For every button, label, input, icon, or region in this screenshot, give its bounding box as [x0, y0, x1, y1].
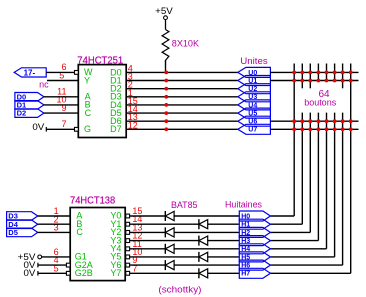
wire D2 to U1 — [44, 112, 78, 114]
wire H1 tag to column — [270, 223, 302, 225]
wire U1 D5 to tag U5 — [126, 112, 238, 114]
net tag H4 — [239, 244, 270, 254]
wire U1 D4 to tag U4 — [126, 104, 238, 106]
net tag 17- — [14, 68, 46, 78]
wire resistor to D0 net — [165, 60, 167, 72]
wire U2 Y7 to diode D8 — [130, 272, 199, 274]
svg-text:G2B: G2B — [75, 268, 93, 278]
junction U1-H1 — [300, 79, 304, 83]
junction U1-H3 — [317, 79, 321, 83]
junction U0-H5 — [333, 71, 337, 75]
svg-text:74HCT251: 74HCT251 — [77, 54, 123, 66]
wire H7 tag to column — [270, 272, 350, 274]
svg-text:+5V: +5V — [155, 6, 173, 16]
net tag U4 — [238, 100, 271, 110]
wire diode D7 to tag H6 — [174, 264, 239, 266]
svg-text:74HCT138: 74HCT138 — [70, 195, 115, 207]
wire D5 to U2 — [38, 231, 70, 233]
svg-text:boutons: boutons — [304, 98, 336, 108]
svg-text:(schottky): (schottky) — [158, 284, 201, 294]
svg-text:C: C — [76, 227, 83, 237]
svg-text:17-: 17- — [24, 69, 36, 78]
net tag H7 — [239, 268, 270, 278]
svg-text:Unites: Unites — [240, 56, 268, 66]
IC U2 74HCT138 body — [70, 208, 125, 281]
junction U6-H6 — [341, 119, 345, 123]
junction U6-H1 — [300, 119, 304, 123]
matrix label 64 boutons — [304, 89, 336, 108]
junction U6-H5 — [333, 119, 337, 123]
wire matrix column H2 lower — [309, 113, 311, 233]
wire matrix row U1 — [270, 80, 358, 82]
inverter bubble U2 G2A — [66, 263, 70, 267]
svg-text:H7: H7 — [241, 271, 250, 278]
wire U2 Y2 to diode D3 — [130, 231, 166, 233]
net tag H2 — [239, 227, 270, 237]
wire H2 tag to column — [270, 231, 310, 233]
svg-text:G: G — [84, 124, 91, 134]
wire H0 tag to column — [270, 215, 294, 217]
ground 0V terminal (U2 G2A) — [24, 260, 38, 270]
wire matrix column H3 lower — [317, 113, 319, 241]
net tag D2 — [15, 109, 44, 118]
junction U0-H7 — [349, 71, 353, 75]
junction U1-H6 — [341, 79, 345, 83]
junction U0-H2 — [308, 71, 312, 75]
junction pull-up on D3 — [164, 95, 168, 99]
net tag D3 — [7, 212, 38, 221]
svg-text:D2: D2 — [17, 109, 27, 118]
net tag U5 — [238, 108, 271, 118]
svg-text:Y7: Y7 — [110, 268, 121, 278]
net tag U6 — [238, 116, 271, 126]
inverter bubble U2 Y6 — [126, 263, 130, 267]
wire U2 Y6 to diode D7 — [130, 264, 166, 266]
diode D5 BAT85 (cathode left) — [165, 244, 174, 254]
wire 0V to G2B — [38, 272, 67, 274]
wire matrix column H7 — [350, 64, 352, 274]
wire D4 to U2 — [38, 223, 70, 225]
wire U1 D7 to tag U7 — [126, 128, 238, 130]
inverter bubble U2 Y7 — [126, 271, 130, 275]
wire U1 D0 to tag U0 — [126, 71, 238, 73]
diode D1 BAT85 (cathode left) — [165, 211, 174, 221]
diode D2 BAT85 (cathode left) — [199, 219, 208, 229]
junction U1-H0 — [292, 79, 296, 83]
net tag H5 — [239, 252, 270, 262]
net tag D4 — [7, 220, 38, 229]
net tag D5 — [7, 228, 38, 237]
ground 0V terminal (U1 G) — [32, 122, 46, 132]
junction pull-up on D2 — [164, 87, 168, 91]
inverter bubble U2 G2B — [66, 271, 70, 275]
wire H5 tag to column — [270, 256, 334, 258]
wire matrix column H3 upper — [317, 64, 319, 81]
wire matrix column H5 upper — [334, 64, 336, 81]
wire Y pin nc stub — [47, 80, 78, 82]
junction U7-H6 — [341, 127, 345, 131]
wire diode D8 to tag H7 — [208, 272, 240, 274]
wire matrix row U6 — [270, 120, 358, 122]
svg-text:BAT85: BAT85 — [171, 200, 198, 210]
junction U1-H5 — [333, 79, 337, 83]
wire matrix column H4 upper — [326, 64, 328, 81]
wire matrix column H2 upper — [309, 64, 311, 89]
svg-text:Huitaines: Huitaines — [225, 199, 262, 209]
junction U1-H4 — [325, 79, 329, 83]
wire +5V to resistor — [165, 20, 167, 30]
junction U6-H0 — [292, 119, 296, 123]
wire H3 tag to column — [270, 240, 318, 242]
net tag D1 — [15, 101, 44, 110]
wire matrix column H6 upper — [342, 64, 344, 89]
svg-text:D5: D5 — [8, 228, 18, 237]
wire diode D3 to tag H2 — [174, 231, 239, 233]
inverter bubble U2 Y2 — [126, 231, 130, 235]
junction U7-H3 — [317, 127, 321, 131]
wire H4 tag to column — [270, 248, 326, 250]
wire D1 to U1 — [44, 104, 78, 106]
wire matrix column H4 lower — [326, 113, 328, 249]
net tag D0 — [15, 92, 44, 101]
inverter bubble U2 Y5 — [126, 255, 130, 259]
svg-text:8X10K: 8X10K — [172, 39, 199, 49]
wire H6 tag to column — [270, 264, 342, 266]
junction pull-up on D4 — [164, 103, 168, 107]
inverter bubble U2 Y1 — [126, 222, 130, 226]
diode D3 BAT85 (cathode left) — [165, 227, 174, 237]
svg-text:0V: 0V — [32, 122, 44, 132]
net tag U3 — [238, 92, 271, 102]
wire U2 Y3 to diode D4 — [130, 240, 199, 242]
junction U0-H4 — [325, 71, 329, 75]
wire diode D1 to tag H0 — [174, 215, 239, 217]
wire +5V to G1 — [42, 256, 71, 258]
wire U2 Y4 to diode D5 — [130, 248, 166, 250]
wire U1 D1 to tag U1 — [126, 80, 238, 82]
junction U0-H6 — [341, 71, 345, 75]
net tag U0 — [238, 67, 271, 77]
junction U1-H2 — [308, 79, 312, 83]
wire diode D2 to tag H1 — [208, 223, 240, 225]
ground 0V terminal (U2 G2B) — [24, 268, 38, 278]
wire 0V to G pin — [46, 128, 74, 130]
junction U6-H3 — [317, 119, 321, 123]
wire D0 to U1 — [44, 96, 78, 98]
wire U2 Y5 to diode D6 — [130, 256, 199, 258]
diode D6 BAT85 (cathode left) — [199, 252, 208, 262]
wire diode D4 to tag H3 — [208, 240, 240, 242]
IC U1 74HCT251 body — [78, 65, 126, 138]
svg-text:0V: 0V — [24, 268, 36, 278]
junction U7-H5 — [333, 127, 337, 131]
wire D3 to U2 — [38, 215, 70, 217]
junction pull-up on D5 — [164, 111, 168, 115]
junction U7-H4 — [325, 127, 329, 131]
inverter bubble U1 pin 6 W — [75, 71, 79, 75]
junction U0-H1 — [300, 71, 304, 75]
wire 0V to G2A — [38, 264, 67, 266]
net tag U2 — [238, 84, 271, 94]
junction U6-H4 — [325, 119, 329, 123]
power +5V terminal — [155, 6, 173, 19]
svg-text:nc: nc — [39, 79, 49, 89]
wire U1 D3 to tag U3 — [126, 96, 238, 98]
junction pull-up on D0 — [164, 71, 168, 75]
net tag H1 — [239, 219, 270, 229]
wire matrix column H5 lower — [334, 113, 336, 257]
wire U2 Y0 to diode D1 — [130, 215, 166, 217]
svg-text:D7: D7 — [110, 124, 122, 134]
junction U1-H7 — [349, 79, 353, 83]
net tag U1 — [238, 76, 271, 86]
resistor network R1 8X10K — [162, 30, 169, 63]
wire matrix column H6 lower — [342, 113, 344, 266]
net tag H0 — [239, 211, 270, 221]
net tag U7 — [238, 124, 271, 134]
junction U6-H2 — [308, 119, 312, 123]
wire matrix column H1 upper — [301, 64, 303, 89]
wire matrix column H1 lower — [301, 113, 303, 225]
junction U7-H2 — [308, 127, 312, 131]
wire U1 D6 to tag U6 — [126, 120, 238, 122]
junction U6-H7 — [349, 119, 353, 123]
junction U0-H0 — [292, 71, 296, 75]
junction pull-up on D6 — [164, 119, 168, 123]
diode D8 BAT85 (cathode left) — [199, 268, 208, 278]
inverter bubble U2 Y4 — [126, 247, 130, 251]
wire matrix row U0 — [270, 71, 358, 73]
wire U1 D2 to tag U2 — [126, 88, 238, 90]
net tag H6 — [239, 260, 270, 270]
inverter bubble U1 pin 7 G — [75, 127, 79, 131]
junction U0-H3 — [317, 71, 321, 75]
svg-text:U7: U7 — [248, 127, 257, 134]
svg-text:7: 7 — [61, 119, 66, 129]
wire tag 17- to W pin — [46, 71, 74, 73]
diode D4 BAT85 (cathode left) — [199, 236, 208, 246]
wire diode D5 to tag H4 — [174, 248, 239, 250]
svg-text:C: C — [85, 108, 92, 118]
wire matrix row U7 — [270, 128, 358, 130]
junction U7-H0 — [292, 127, 296, 131]
junction pull-up on D1 — [164, 79, 168, 83]
diode D7 BAT85 (cathode left) — [165, 260, 174, 270]
svg-text:Y: Y — [84, 75, 90, 85]
wire U2 Y1 to diode D2 — [130, 223, 199, 225]
power +5V terminal (U2 G1) — [18, 252, 42, 262]
junction U7-H1 — [300, 127, 304, 131]
inverter bubble U2 Y0 — [126, 214, 130, 218]
junction pull-up on D7 — [164, 127, 168, 131]
wire diode D6 to tag H5 — [208, 256, 240, 258]
junction U7-H7 — [349, 127, 353, 131]
inverter bubble U2 Y3 — [126, 239, 130, 243]
wire matrix column H0 — [293, 64, 295, 217]
net tag H3 — [239, 236, 270, 246]
